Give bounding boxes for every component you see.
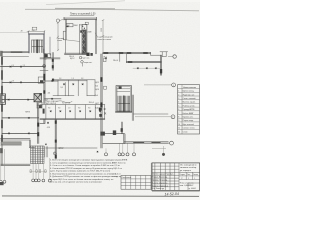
svg-text:Провод АППВ: Провод АППВ [183,108,195,111]
svg-text:3х4: 3х4 [95,108,98,110]
corner piece top-right [160,52,168,57]
detail right wall [95,19,98,54]
svg-text:3. Сети в т.ч. и от блоков. Ст: 3. Сети в т.ч. и от блоков. Стыки заводи… [50,165,120,167]
scan left edge blob 4 [0,182,4,185]
corridor wall x44.5 lower [40,119,45,124]
faint wiring y68.2 [133,67,161,69]
detail dimension line [102,20,104,54]
right wall lower x38 [38,103,39,143]
svg-text:1,9: 1,9 [72,78,74,80]
svg-text:щите. В установке клеммы зазем: щите. В установке клеммы заземлить по ГО… [50,171,111,173]
closet box [38,77,44,83]
big room bottom wall [46,147,97,149]
corridor short wall [40,70,48,72]
svg-text:4х6: 4х6 [48,92,51,94]
org cell [188,183,200,190]
svg-text:стояк: стояк [57,40,62,42]
right leader 3 [135,116,171,118]
top wall left wing [2,52,29,53]
svg-text:1. Все сети общего освещения и: 1. Все сети общего освещения и силовые п… [50,159,128,162]
svg-text:2х4: 2х4 [95,95,98,97]
top wall right wing [103,52,151,53]
wall y61.5 [126,61,161,62]
wall x55 lower [55,119,56,159]
grid circle R2 [172,83,176,87]
grid circle R1 [173,55,176,58]
room top wall y79.7 [53,80,95,81]
grid circle J [126,153,129,156]
room wall y117.9 [2,117,39,119]
lamp crosses room row [50,111,52,113]
svg-text:1: 1 [178,91,179,93]
svg-text:6: 6 [178,109,179,111]
scan bottom edge line [2,195,199,198]
detail left wall [65,19,66,53]
grid circle R5 [152,146,166,153]
faint dim line [0,32,28,34]
lamp crosses left wing [10,66,12,68]
scan top edge line [25,9,199,11]
svg-text:Провер. Петров дд: Провер. Петров дд [152,180,167,182]
window band dark [1,142,21,145]
legend table box [178,85,200,134]
svg-text:ЩО7: ЩО7 [95,103,99,105]
left outer wall [1,52,3,166]
balcony box left wall [0,94,6,104]
shaft left line [80,24,82,54]
detail left dim line [57,22,59,51]
stair shaft 2 outer [116,86,131,112]
svg-text:Разраб. Иванов дд: Разраб. Иванов дд [152,177,167,179]
panel box ЩЭ [34,94,41,102]
svg-text:Н.контр. Смирнов д: Н.контр. Смирнов д [152,185,167,187]
svg-text:2: 2 [54,153,55,155]
svg-text:9,8: 9,8 [81,78,83,80]
stair shaft 2 treads [118,96,130,111]
riser shaft [82,24,87,54]
grid circle K [133,153,136,156]
svg-text:на щите ЩО-1 и в стене от блок: на щите ЩО-1 и в стене от блоков питания… [50,178,114,181]
svg-text:9,8: 9,8 [60,87,62,89]
svg-text:План этажа на: План этажа на [180,182,194,184]
top wall hatch [12,51,22,53]
svg-text:Розетка штепс.: Розетка штепс. [183,105,196,107]
lamp crosses center rooms [51,80,53,82]
svg-text:14-52-04: 14-52-04 [164,192,179,196]
room right of shaft [132,95,133,121]
svg-text:Кабель АВВГ: Кабель АВВГ [183,112,194,115]
svg-text:3: 3 [178,98,179,100]
scan noise texture [0,2,200,197]
svg-text:ЩО-2: ЩО-2 [70,58,74,60]
svg-text:гр. 04-401: гр. 04-401 [189,188,196,190]
svg-text:Св-ик с лампой: Св-ик с лампой [183,97,196,100]
svg-text:уч. корпуса: уч. корпуса [180,170,192,172]
svg-text:ЩО-3 ЩО-4: ЩО-3 ЩО-4 [46,103,56,105]
room wall y95.6 [53,95,74,97]
svg-text:2ШМ: 2ШМ [74,25,78,27]
detail title underline [70,14,94,16]
grid circle B [3,180,6,183]
small room left of shaft [104,86,107,89]
bottom wall y164.5 [1,164,30,165]
svg-text:ЩО6: ЩО6 [95,89,99,91]
svg-text:4,95: 4,95 [47,127,50,129]
detail grid circle [56,19,59,22]
svg-text:Утв. Козлов дд: Утв. Козлов дд [152,188,164,190]
svg-text:Щиток освещ.: Щиток освещ. [183,91,195,93]
svg-text:Стояк: Стояк [183,132,188,134]
svg-text:5: 5 [178,105,179,107]
leaders middle circles [106,144,134,153]
wc rooms [37,103,42,109]
stairs dim line [27,30,45,32]
svg-text:7: 7 [178,113,179,115]
entrance step walls [29,140,34,148]
wall B x52.5 [52,53,53,71]
panel box ЩС [66,24,73,27]
note symbol circle [54,152,57,155]
grid circle F [42,179,45,182]
room verticals [58,80,87,96]
room wall y82.4 [2,81,44,83]
room wall y133.4 [2,132,39,134]
svg-text:ящик сил.: ящик сил. [84,62,93,64]
svg-text:Ящик упр. авт.: Ящик упр. авт. [183,94,195,96]
room row walls [40,105,105,120]
svg-text:План у эл.щитовой 1:50: План у эл.щитовой 1:50 [70,12,96,15]
svg-text:Патрон подв.: Патрон подв. [183,120,195,122]
svg-text:Наименование: Наименование [183,87,196,89]
svg-text:2,8: 2,8 [12,65,14,67]
svg-text:Выключ. одноп.: Выключ. одноп. [183,102,197,104]
stair shaft 2 top marks [117,89,130,92]
svg-text:щит осв.: щит осв. [83,58,91,60]
svg-text:2: 2 [178,94,179,96]
title block outer box [152,163,200,191]
svg-text:ПУГВ: ПУГВ [25,111,31,113]
svg-text:10: 10 [178,124,180,126]
right wall upper x44.5 [44,49,45,104]
grid circle D [35,179,38,182]
svg-text:1: 1 [173,85,174,87]
bottom wall y139 [1,139,30,140]
revision sub-table [121,176,151,190]
svg-text:28: 28 [21,30,23,32]
svg-text:2ШМ: 2ШМ [87,32,91,34]
scan diagonal scratch [46,1,125,5]
scan left edge blob 1 [0,51,3,57]
svg-text:Щит этажный: Щит этажный [183,123,194,126]
stair shaft 2 bottom wall [115,112,132,113]
svg-text:от пола: от пола [112,176,118,178]
svg-text:3х4: 3х4 [95,86,98,88]
svg-text:ПУГВ: ПУГВ [58,148,63,150]
grid circle A [0,180,2,183]
svg-text:Т.контр. Сидоров д: Т.контр. Сидоров д [152,182,167,184]
stairs flag box [32,27,37,30]
detail bottom dark cluster [86,53,89,56]
wiring line y81 [45,80,58,82]
svg-text:1: 1 [194,178,195,180]
svg-text:9,8: 9,8 [78,108,80,110]
bottom wall right wing [124,142,168,143]
svg-text:1,9: 1,9 [68,108,70,110]
svg-text:Лист: Лист [187,174,191,176]
grid circle C [32,179,35,182]
pilaster box [63,31,66,40]
wiring y98.8 [45,98,62,100]
svg-text:5. Выключатели и розетки штепс: 5. Выключатели и розетки штепсельные уст… [50,173,121,175]
dim ticks row [30,171,47,173]
grid circle R3 [171,115,175,119]
title block rows [152,172,200,187]
corridor wall x101.5 [101,54,102,148]
svg-text:28-0,4: 28-0,4 [89,102,94,104]
title block columns upper [155,163,179,191]
stair treads [32,40,43,53]
lift box [44,54,51,58]
svg-text:сети на отм. 2,5 от уровня чис: сети на отм. 2,5 от уровня чистого пола … [50,182,102,184]
svg-text:ЩО5: ЩО5 [95,82,99,84]
svg-text:Коробка отв.: Коробка отв. [183,117,194,119]
svg-text:Согласовано: Согласовано [122,177,132,179]
svg-text:4. Светильники ЛПО 02 выверить: 4. Светильники ЛПО 02 выверить по месту.… [50,168,123,170]
detail top wall [64,17,97,20]
symbol below detail 2 [81,61,84,64]
grid circle I [121,153,124,156]
svg-text:2: 2 [172,117,173,119]
svg-text:1: 1 [188,178,189,180]
grid circle H [118,153,121,156]
symbol below detail 1 [79,56,82,59]
grid circle G [105,153,108,156]
svg-text:28-0,4: 28-0,4 [113,60,118,62]
panel cluster at corridor junction [99,108,102,111]
svg-text:9,8: 9,8 [88,108,90,110]
right leader 1 [168,56,173,58]
scan left edge blob 3 [0,148,3,153]
svg-text:Светил. потол.: Светил. потол. [183,128,196,130]
right leader 2 [144,84,172,86]
grid circle R4 [170,141,174,145]
room wall y66.6 [1,66,45,68]
stairs walls [29,31,50,55]
svg-text:2,8: 2,8 [23,65,25,67]
room wall y99.6 [2,99,39,101]
title block upper row lines [152,166,179,169]
svg-text:11: 11 [178,128,180,130]
junction lamp circle [43,65,46,68]
entrance hatch block [31,146,45,164]
inner wall y56.6 [2,56,29,58]
corridor wall short [40,58,60,59]
lamp crosses right wing corridor [105,57,107,59]
svg-text:12: 12 [178,132,180,134]
svg-text:Листов: Листов [193,174,198,176]
stage cells [179,172,200,179]
svg-text:9,8: 9,8 [59,78,61,80]
svg-text:4: 4 [178,102,179,104]
step wall right [151,52,162,55]
svg-text:9,8: 9,8 [58,108,60,110]
svg-text:9,8: 9,8 [48,108,50,110]
svg-text:силовое эл.обор.: силовое эл.обор. [180,167,197,169]
left wall window segments [1,58,3,142]
svg-text:Стадия: Стадия [180,174,185,176]
svg-text:этажа от стояка: этажа от стояка [97,39,112,41]
scan top dark band near detail [55,7,115,10]
svg-text:1520: 1520 [101,28,103,32]
right leader 4 [168,142,169,144]
svg-text:9: 9 [178,120,179,122]
detail bottom wall [65,53,88,54]
svg-text:2. Сеть аварийного освещения д: 2. Сеть аварийного освещения до светильн… [50,161,126,164]
center-bottom rooms [103,134,125,144]
leader lines bottom-left circles [1,149,50,180]
svg-text:8: 8 [178,117,179,119]
grid circle E [37,179,40,182]
